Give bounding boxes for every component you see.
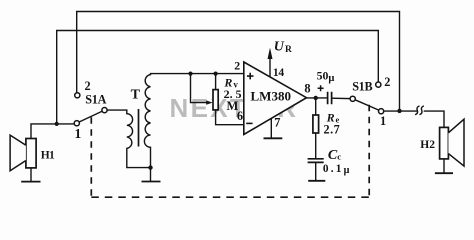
- svg-text:8: 8: [304, 81, 310, 95]
- transformer T secondary winding: [144, 75, 150, 148]
- wire Rv wiper from pin2 node: [191, 74, 208, 103]
- switch S1B terminal 1: [379, 109, 384, 114]
- svg-text:H1: H1: [41, 149, 55, 161]
- wire Rv bottom lead to LM380 pin6: [216, 110, 244, 125]
- wire H2 bottom lead: [443, 159, 445, 173]
- capacitor 50u plates: [328, 92, 332, 104]
- svg-text:2: 2: [234, 58, 240, 72]
- transformer core: [138, 109, 140, 147]
- wire pin8 output to 50u cap: [307, 97, 328, 99]
- transformer T primary winding: [127, 114, 133, 149]
- svg-text:7: 7: [274, 116, 280, 130]
- svg-text:2: 2: [384, 75, 390, 89]
- switch S1B common: [350, 96, 355, 101]
- wire outer top bus: S1A terminal2 up, across top, down to H2 node: [77, 12, 400, 111]
- node: Rv top junction: [214, 72, 218, 76]
- switch S1B terminal 2: [376, 82, 381, 87]
- potentiometer Rv wiper arrowhead: [206, 100, 212, 104]
- wire 50u cap to S1B common: [332, 97, 350, 99]
- svg-text:S1B: S1B: [352, 80, 372, 94]
- ground (H2): [435, 172, 453, 174]
- dashed enclosure bottom side: [91, 196, 369, 198]
- svg-text:H2: H2: [420, 139, 435, 151]
- dashed enclosure right side: [368, 105, 370, 197]
- svg-text:U: U: [274, 40, 285, 55]
- wire transformer primary bottom to ground junction: [127, 148, 149, 167]
- svg-text:2.7: 2.7: [324, 122, 341, 136]
- svg-text:c: c: [337, 151, 341, 161]
- svg-text:0.1μ: 0.1μ: [323, 163, 352, 176]
- switch S1A terminal 1: [74, 121, 79, 126]
- svg-text:LM380: LM380: [251, 89, 291, 104]
- svg-text:T: T: [131, 87, 141, 102]
- svg-text:1: 1: [75, 126, 82, 141]
- supply arrow UR arrowhead: [268, 48, 273, 59]
- wire Cc to ground: [315, 162, 317, 180]
- op-amp plus sign: [247, 73, 254, 80]
- node: junction H1/S1A-1/inner bus: [55, 122, 59, 126]
- speaker H2 cone: [448, 119, 464, 166]
- speaker H1 body: [26, 139, 36, 168]
- wire Re to Cc: [315, 133, 317, 159]
- wire Rv top lead: [215, 74, 217, 90]
- capacitor 50u plus sign: [318, 85, 324, 91]
- wire transformer secondary top to LM380 pin2: [151, 74, 244, 75]
- wire pin14: [269, 59, 271, 78]
- switch S1A terminal 2: [75, 93, 80, 98]
- capacitor Cc plates: [308, 159, 324, 163]
- potentiometer Rv body: [213, 90, 218, 110]
- speaker H2 body: [440, 127, 449, 158]
- ground (Cc): [308, 180, 325, 182]
- switch S1B arm: [355, 100, 379, 110]
- wire H1 top to S1A terminal1: [31, 124, 74, 138]
- svg-text:14: 14: [273, 66, 284, 79]
- op-amp U1 LM380 triangle: [244, 62, 307, 135]
- switch S1A pivot: [102, 108, 107, 113]
- wire pin7 to ground: [270, 118, 272, 138]
- ground (transformer): [142, 181, 161, 183]
- node: H2/outer bus junction: [397, 109, 401, 113]
- svg-text:R: R: [285, 45, 292, 55]
- wire inner top bus: H1 node up, across, down to S1B terminal2: [57, 31, 379, 124]
- wire transformer secondary bottom to ground: [150, 147, 152, 181]
- dashed enclosure left side: [90, 117, 92, 197]
- svg-text:S1A: S1A: [85, 93, 106, 107]
- wire jack to H2: [424, 111, 444, 127]
- wire S1B terminal1 to H2 node: [384, 110, 417, 112]
- wire S1A pivot to transformer primary top: [107, 110, 127, 114]
- speaker H1 cone: [10, 135, 26, 171]
- svg-text:2: 2: [85, 79, 91, 93]
- svg-text:1: 1: [380, 114, 386, 128]
- jack connector to H2: [415, 106, 419, 115]
- node: output junction: [314, 96, 318, 100]
- node: wiper junction on pin2 wire: [188, 72, 192, 76]
- ground (pin7): [264, 137, 283, 139]
- node: transformer ground junction: [148, 165, 152, 169]
- switch S1A arm: [79, 111, 102, 122]
- wire H1 bottom lead: [30, 168, 32, 181]
- resistor Re body: [313, 115, 319, 133]
- ground (H1): [21, 181, 40, 183]
- op-amp minus sign: [246, 122, 252, 124]
- svg-text:6: 6: [237, 109, 243, 123]
- wire output node down to Re: [315, 98, 317, 115]
